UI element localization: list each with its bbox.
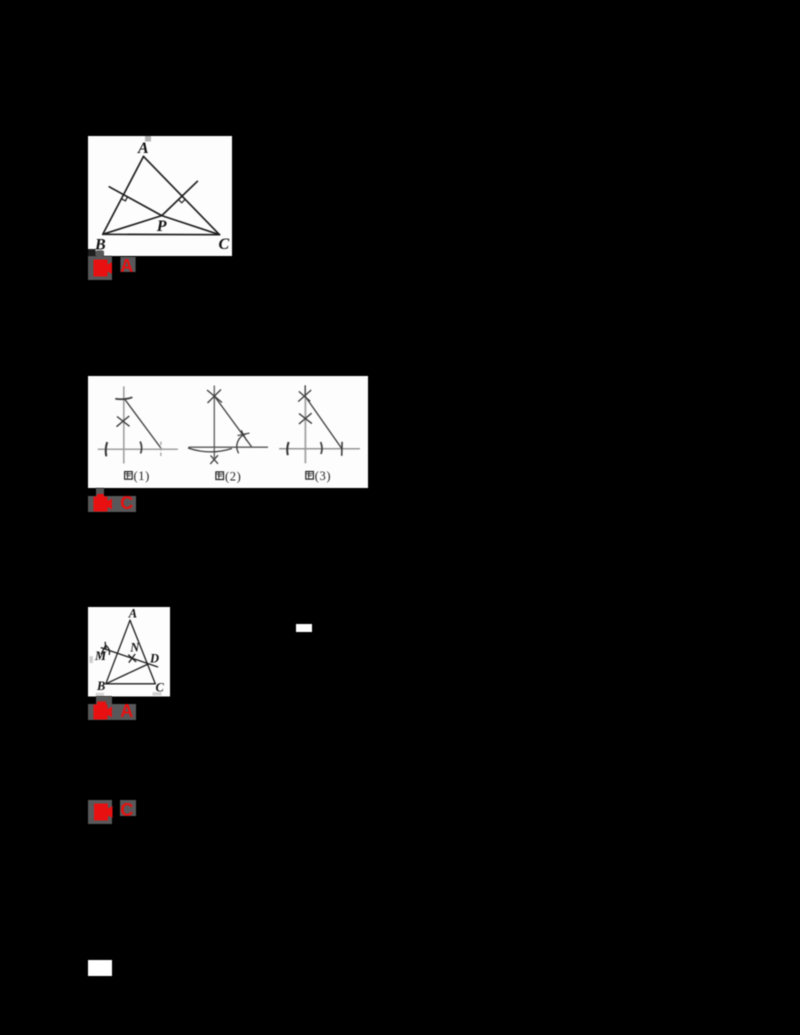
fig3 vertical line — [304, 385, 306, 397]
fig2 vertical line — [213, 386, 215, 459]
side BC — [106, 683, 156, 685]
svg-text:A: A — [128, 607, 137, 620]
line M to D extended — [101, 648, 157, 667]
fig1 middle tick — [140, 442, 141, 454]
fig3 horizontal line — [279, 448, 360, 450]
svg-text:A: A — [137, 139, 149, 156]
fig2 horizontal line — [188, 446, 268, 448]
fig2 slanted line — [215, 396, 252, 447]
fig2 top X — [207, 390, 222, 404]
side AB — [106, 620, 130, 684]
side AC — [130, 620, 155, 684]
svg-text:D: D — [149, 651, 159, 665]
right angle mark on AC — [179, 199, 186, 202]
fig3 middle tick — [321, 442, 322, 454]
segment PB — [103, 215, 162, 234]
perpendicular from P to AB — [109, 186, 161, 215]
svg-text:A: A — [120, 256, 133, 276]
white dash right of panel 3 — [296, 624, 312, 632]
white box bottom — [88, 960, 112, 976]
answer marker 2: video icon + letter C — [88, 488, 136, 512]
answer marker 1: video icon + letter A — [88, 250, 136, 280]
svg-text:M: M — [94, 649, 107, 663]
side BC — [103, 233, 220, 235]
fig3 label — [306, 469, 331, 483]
fig2 label — [216, 469, 241, 483]
fig3 top X — [298, 390, 311, 402]
answer marker 3: video icon + letter A — [88, 696, 136, 720]
fig2 X on slant — [238, 430, 250, 440]
svg-text:C: C — [219, 235, 230, 252]
fig1 foot dashed tick — [160, 442, 162, 457]
svg-text:(1): (1) — [134, 469, 150, 483]
side AB — [103, 156, 144, 234]
asterisk mark at M — [104, 642, 107, 648]
fig3 slanted line — [305, 397, 342, 449]
figure panel 1: triangle ABC with point P — [88, 136, 232, 257]
figure panel 2: three construction figures — [88, 376, 368, 488]
fig3 middle X — [299, 413, 312, 424]
fig2 wide bottom arc — [188, 448, 232, 452]
fig1 cap arc — [115, 397, 132, 399]
fig1 X mark — [117, 416, 130, 427]
perpendicular from P to AC — [162, 181, 198, 215]
fig1 label — [125, 469, 150, 483]
svg-text:B: B — [96, 679, 105, 693]
svg-text:A: A — [120, 701, 133, 720]
light smudges — [90, 656, 93, 663]
fig1 vertical line — [123, 386, 125, 463]
X mark at N — [129, 654, 136, 662]
fig1 left tick — [106, 442, 107, 456]
fig2 angle arc — [237, 434, 247, 454]
segment BD — [106, 664, 148, 684]
side AC — [144, 156, 220, 234]
svg-text:P: P — [156, 218, 167, 235]
gray smudge above A — [145, 136, 151, 142]
figure panel 3: triangle ABC with M N D — [88, 607, 170, 697]
dark corner marks bottom-left — [88, 249, 96, 257]
svg-text:C: C — [156, 681, 165, 695]
fig1 horizontal line — [98, 448, 178, 450]
svg-text:N: N — [129, 641, 140, 655]
svg-text:(3): (3) — [315, 469, 331, 483]
segment PC — [162, 215, 220, 234]
svg-text:C: C — [120, 493, 133, 512]
svg-text:C: C — [120, 800, 133, 820]
fig3 foot tick — [341, 442, 343, 456]
answer marker 4: video icon + letter C — [88, 800, 136, 824]
fig3 left tick — [287, 442, 288, 455]
fig2 bottom X — [210, 455, 218, 464]
right angle mark on AB — [121, 196, 127, 200]
fig1 slanted line — [124, 399, 161, 449]
svg-text:(2): (2) — [225, 469, 241, 483]
